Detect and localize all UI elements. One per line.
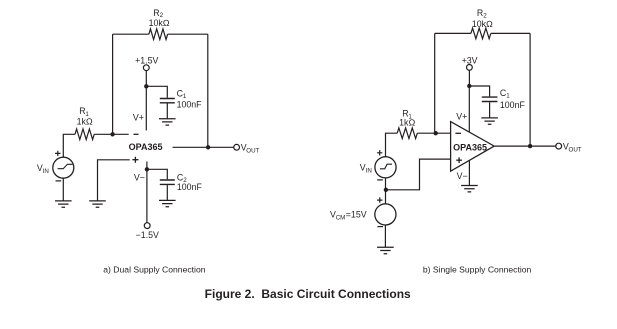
node VIN/VCM junction	[384, 188, 388, 192]
svg-text:10kΩ: 10kΩ	[472, 19, 493, 29]
ground non-inverting (left)	[89, 201, 106, 207]
svg-text:V−: V−	[457, 171, 468, 181]
wire VIN to ground	[62, 178, 64, 201]
svg-text:1kΩ: 1kΩ	[77, 116, 93, 126]
op-amp U1 label OPA365 (left)	[129, 142, 163, 152]
wire VIN to VCM	[385, 178, 387, 204]
terminal +1.5V	[143, 65, 149, 71]
wire VIN to R1 (right)	[386, 133, 398, 157]
svg-text:a) Dual Supply Connection: a) Dual Supply Connection	[103, 265, 205, 275]
wire C2 to ground	[166, 185, 168, 200]
wire output	[173, 146, 234, 148]
figure caption	[205, 287, 411, 301]
svg-text:V−: V−	[134, 173, 145, 183]
svg-text:100nF: 100nF	[177, 99, 203, 109]
minus input mark (right op-amp)	[455, 132, 461, 134]
caption a	[103, 265, 205, 275]
wire top rail right segment	[168, 33, 208, 35]
ground VCM	[377, 247, 394, 253]
wire C1 to ground (right)	[489, 102, 491, 118]
label V+	[133, 113, 144, 123]
node output junction (right)	[528, 144, 532, 148]
wire feedback left vertical	[112, 34, 114, 134]
label VIN (right)	[360, 162, 372, 174]
ground C1 (right)	[481, 118, 498, 124]
svg-text:+3V: +3V	[462, 56, 478, 66]
label VOUT (right)	[563, 142, 582, 154]
wire top rail right segment (right circuit)	[491, 32, 530, 34]
source VIN (left)	[53, 157, 74, 178]
wire V- pin	[146, 162, 148, 223]
wire to C1	[146, 86, 167, 98]
wire to C1 (right)	[469, 86, 489, 96]
svg-text:b) Single Supply Connection: b) Single Supply Connection	[423, 264, 532, 274]
svg-text:CM: CM	[336, 214, 346, 221]
label 1kOhm (right)	[399, 117, 415, 127]
svg-text:IN: IN	[43, 168, 49, 175]
label R2 (right)	[477, 8, 487, 19]
label V+ (right)	[456, 112, 467, 122]
wire VIN to R1	[63, 134, 75, 157]
resistor R1 (left)	[75, 129, 94, 140]
op-amp label OPA365 (right)	[453, 142, 487, 152]
plus mark VIN (right)	[377, 150, 382, 155]
wire non-inverting input	[98, 160, 130, 201]
wire to C2	[147, 169, 167, 179]
minus mark VCM	[377, 226, 383, 228]
terminal -1.5V	[144, 223, 150, 229]
plus mark VIN (left)	[55, 151, 60, 156]
node V+ junction (right)	[467, 84, 471, 88]
terminal +3V	[467, 65, 473, 71]
wire V- pin (right)	[468, 160, 470, 185]
label 10kOhm (right)	[472, 19, 493, 29]
sine mark VIN (right)	[380, 164, 392, 169]
wire +1.5V stem	[145, 71, 147, 87]
svg-text:OPA365: OPA365	[453, 142, 487, 152]
label VOUT (left)	[241, 143, 260, 155]
plus mark VCM	[377, 197, 382, 202]
label 100nF C2	[177, 182, 203, 192]
svg-text:10kΩ: 10kΩ	[149, 18, 170, 28]
capacitor C1 (right)	[482, 97, 498, 101]
wire R1 to inverting input (right)	[417, 132, 450, 134]
minus mark VIN (left)	[56, 180, 62, 182]
op-amp U1 triangle (right)	[451, 122, 495, 172]
wire C1 to ground	[166, 104, 168, 119]
svg-text:OUT: OUT	[246, 148, 259, 155]
capacitor C2	[160, 180, 175, 184]
svg-text:IN: IN	[366, 167, 372, 174]
label R1	[79, 106, 89, 118]
resistor R1 (right)	[397, 128, 417, 139]
ground VIN (left)	[55, 201, 72, 207]
svg-text:OUT: OUT	[569, 147, 582, 154]
label C1	[177, 88, 187, 100]
node feedback junction (right)	[434, 131, 438, 135]
node output junction	[206, 145, 210, 149]
svg-text:−1.5V: −1.5V	[136, 230, 159, 240]
resistor R2 (right)	[471, 28, 491, 39]
svg-text:V+: V+	[133, 113, 144, 123]
sine mark VIN (left)	[58, 164, 73, 168]
source VCM	[375, 204, 396, 225]
terminal VOUT (left)	[234, 144, 240, 150]
label R1 (right)	[402, 108, 412, 120]
capacitor C1 (left)	[160, 99, 175, 103]
svg-text:100nF: 100nF	[177, 182, 203, 192]
node V- junction	[145, 167, 149, 171]
svg-text:Figure 2. Basic Circuit Conne: Figure 2. Basic Circuit Connections	[205, 287, 411, 301]
label VCM = 15V	[330, 209, 367, 221]
svg-text:1kΩ: 1kΩ	[399, 117, 415, 127]
minus mark VIN (right)	[377, 179, 383, 181]
wire V+ pin (right)	[468, 86, 470, 132]
resistor R2 (left)	[149, 29, 168, 40]
label VIN (left)	[37, 163, 49, 175]
wire non-inverting path (right)	[386, 159, 451, 190]
wire top rail left segment	[113, 33, 149, 35]
wire VCM to ground	[384, 225, 386, 247]
plus input mark (right op-amp)	[456, 157, 462, 163]
label +1.5V	[135, 56, 158, 66]
wire right vertical to output (right circuit)	[529, 33, 531, 146]
svg-text:+1.5V: +1.5V	[135, 56, 158, 66]
label 100nF	[177, 99, 203, 109]
label C1 (right)	[500, 88, 510, 100]
plus input mark (left op-amp)	[132, 157, 138, 163]
svg-text:V+: V+	[456, 112, 467, 122]
wire feedback left vertical (right circuit)	[434, 33, 436, 133]
label 100nF (right)	[500, 100, 526, 110]
wire output (right)	[494, 145, 556, 147]
ground C1 (left)	[159, 119, 176, 125]
label R2	[153, 8, 163, 19]
label 1kOhm	[77, 116, 93, 126]
wire R1 to inverting input	[94, 133, 129, 135]
label V-	[134, 173, 145, 183]
wire V+ pin	[145, 86, 147, 130]
label C2	[177, 172, 187, 184]
label 10kOhm	[149, 18, 170, 28]
node feedback junction	[110, 132, 114, 136]
svg-text:=15V: =15V	[346, 209, 367, 219]
ground V- (right)	[461, 186, 478, 192]
svg-text:OPA365: OPA365	[129, 142, 163, 152]
node V+ junction	[144, 84, 148, 88]
caption b	[423, 264, 532, 274]
label -1.5V	[136, 230, 159, 240]
wire right vertical to output	[207, 34, 209, 147]
source VIN (right)	[375, 157, 396, 178]
wire +3V stem	[468, 70, 470, 86]
terminal VOUT (right)	[556, 143, 562, 149]
svg-text:1: 1	[506, 93, 510, 100]
minus input mark (left op-amp)	[134, 133, 139, 135]
svg-text:100nF: 100nF	[500, 100, 526, 110]
label V- (right)	[457, 171, 468, 181]
ground C2	[159, 200, 176, 206]
wire top rail left segment (right circuit)	[435, 32, 471, 34]
label +3V	[462, 56, 478, 66]
